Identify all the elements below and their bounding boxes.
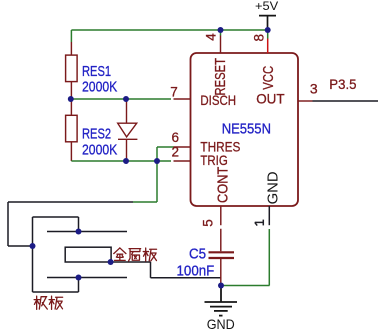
svg-text:RES1: RES1 xyxy=(82,63,111,80)
pin 6 lead xyxy=(174,146,191,148)
wire to plates black xyxy=(8,202,133,246)
resistor R2 RES2 xyxy=(66,99,78,161)
capacitor C5 xyxy=(209,206,235,286)
pin 4 lead xyxy=(220,36,222,54)
pin 2 lead xyxy=(174,160,191,162)
svg-text:GND: GND xyxy=(265,171,281,204)
plate bracket wire xyxy=(33,217,79,292)
wire OUT net black xyxy=(313,100,378,102)
op-amp U1 NE555N chip body xyxy=(191,53,299,206)
diode D1 xyxy=(118,99,138,161)
svg-text:7: 7 xyxy=(170,84,178,99)
plate 2 xyxy=(47,277,127,279)
svg-text:2000K: 2000K xyxy=(82,79,117,96)
label jinshuban metal plate text xyxy=(114,248,157,261)
svg-text:100nF: 100nF xyxy=(177,263,215,280)
svg-text:GND: GND xyxy=(207,316,235,330)
svg-text:CONT: CONT xyxy=(215,166,231,203)
svg-text:OUT: OUT xyxy=(256,91,285,107)
pin 3 lead xyxy=(298,100,313,102)
svg-text:6: 6 xyxy=(172,130,180,145)
wire top net green xyxy=(71,30,267,42)
svg-text:8: 8 xyxy=(251,34,266,42)
svg-text:2: 2 xyxy=(172,145,180,160)
ground symbol xyxy=(205,286,238,316)
svg-text:VCC: VCC xyxy=(261,66,277,90)
pin 8 lead xyxy=(267,39,269,54)
svg-text:3: 3 xyxy=(310,80,318,96)
wire gnd net green xyxy=(221,229,270,286)
svg-text:NE555N: NE555N xyxy=(222,121,271,138)
wire bottom net green xyxy=(71,147,173,202)
pin number 1 rotated xyxy=(255,220,263,226)
svg-text:TRIG: TRIG xyxy=(200,152,227,168)
plate 1 xyxy=(47,231,127,233)
resistor R1 RES1 xyxy=(66,42,78,99)
wire pin7 net green xyxy=(71,98,171,100)
svg-text:+5V: +5V xyxy=(255,0,279,13)
pin 7 lead xyxy=(174,98,191,100)
svg-text:C5: C5 xyxy=(189,246,206,263)
+5V power symbol xyxy=(259,16,276,30)
label jiban plate text xyxy=(34,296,63,309)
svg-text:4: 4 xyxy=(204,33,219,41)
svg-text:RES2: RES2 xyxy=(82,126,111,143)
svg-text:RESET: RESET xyxy=(213,58,229,96)
metal plate rect xyxy=(65,247,111,262)
junction node dots xyxy=(30,27,271,289)
svg-text:P3.5: P3.5 xyxy=(329,76,356,92)
svg-text:5: 5 xyxy=(201,219,216,227)
pin 1 lead black xyxy=(268,206,270,225)
metal plate wire xyxy=(111,262,221,278)
svg-text:2000K: 2000K xyxy=(82,141,117,158)
